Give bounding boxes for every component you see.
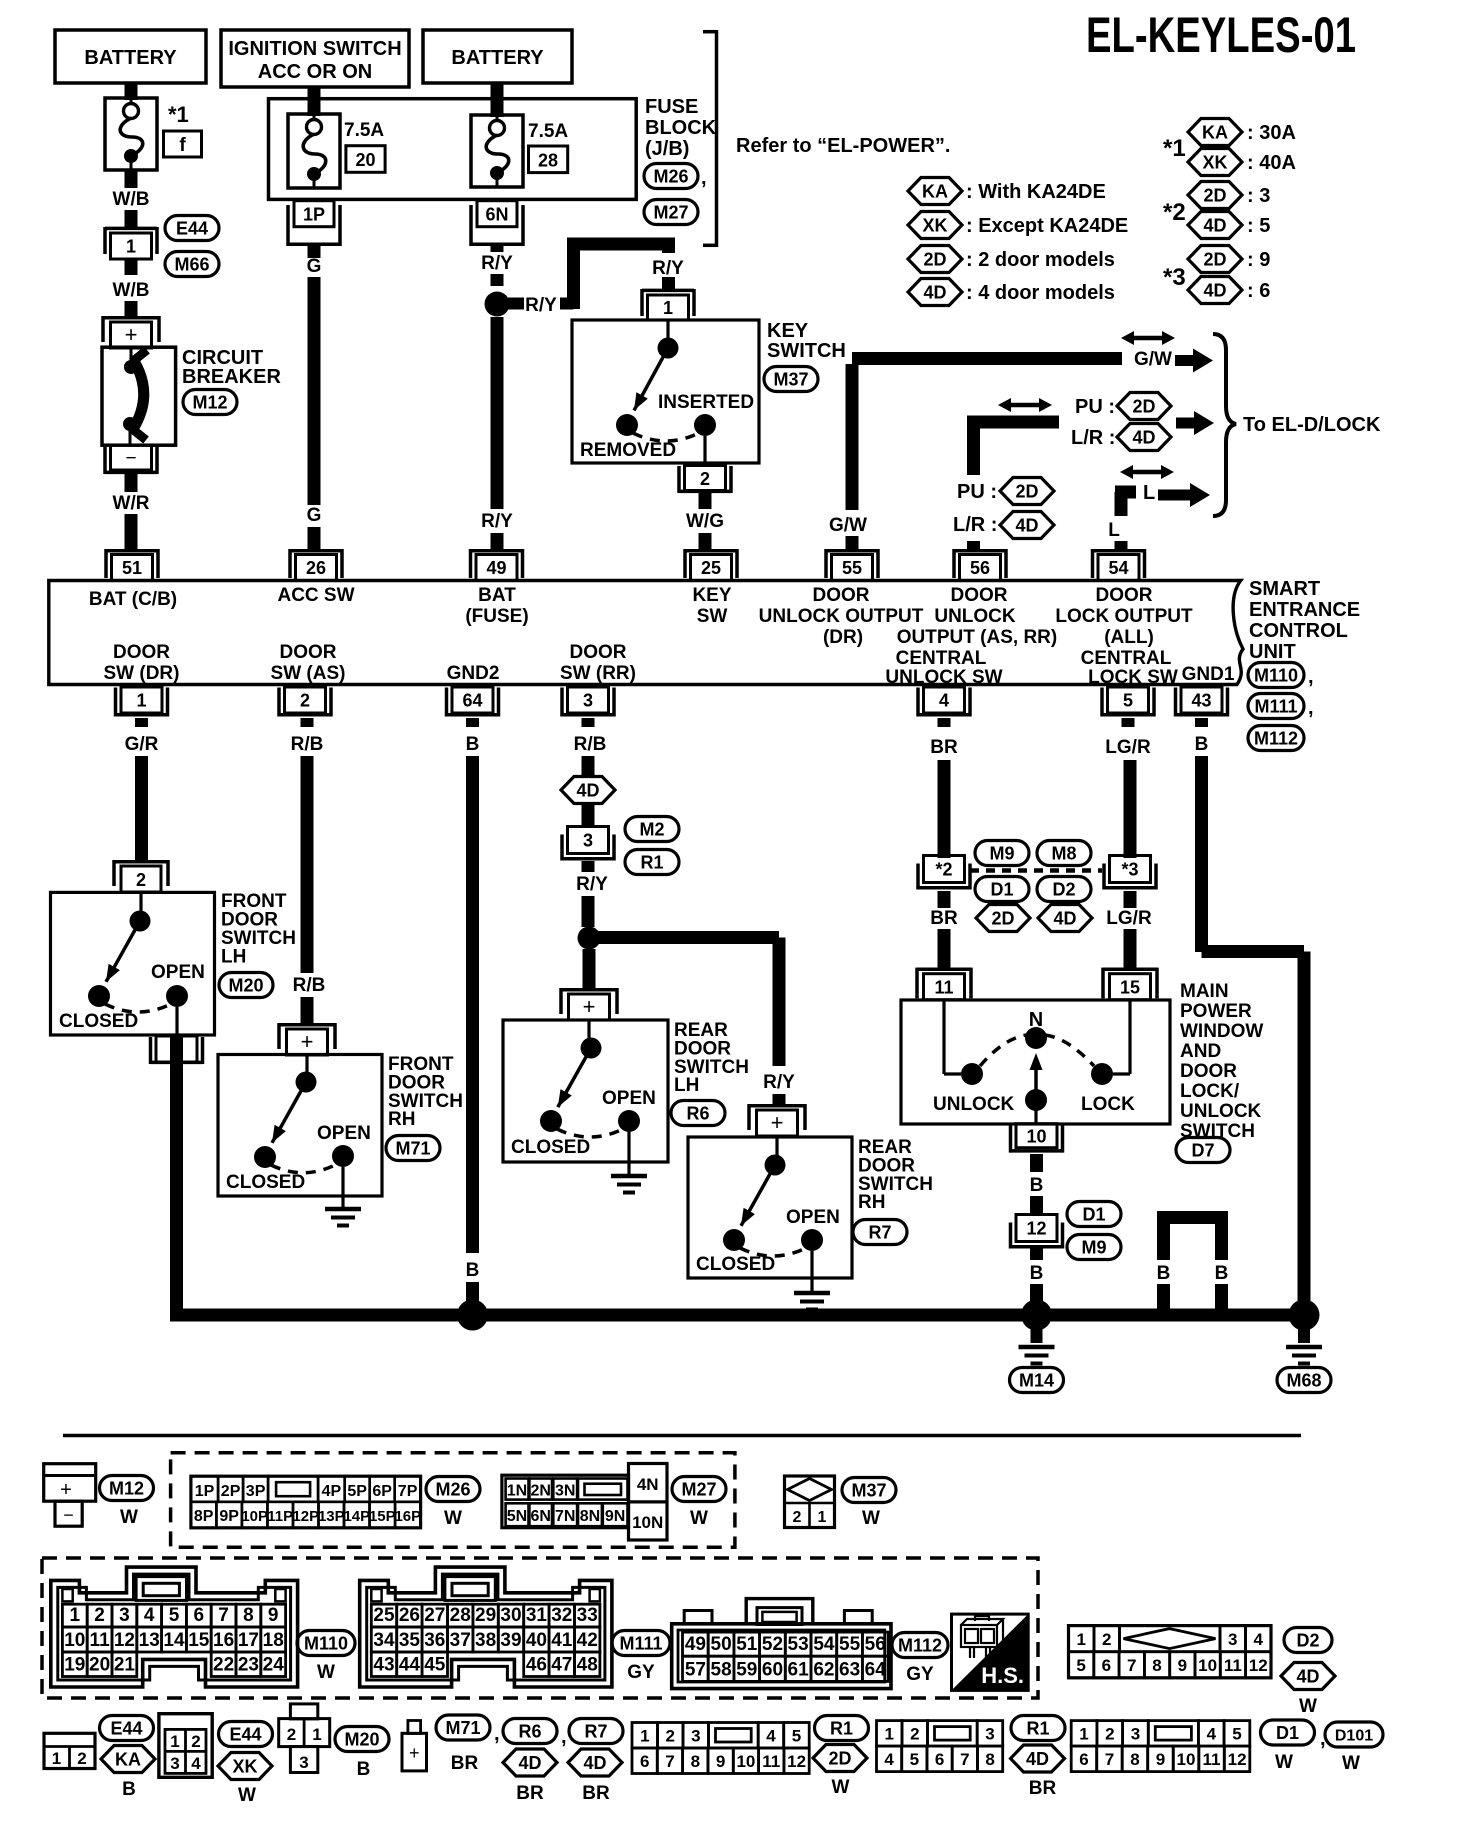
svg-text:R6: R6 [518,1722,541,1742]
svg-text:29: 29 [475,1605,496,1626]
svg-text:M37: M37 [851,1481,886,1501]
svg-text:M14: M14 [1019,1371,1054,1391]
svg-text:27: 27 [424,1605,445,1626]
svg-text:R6: R6 [686,1104,709,1124]
svg-text:−: − [63,1505,74,1525]
svg-text:7: 7 [218,1605,229,1626]
dashed box M110 M111 M112 [42,1558,1038,1698]
svg-text:12: 12 [114,1630,135,1651]
svg-text:2: 2 [665,1727,674,1746]
svg-text:2: 2 [287,1725,296,1744]
svg-text:W/B: W/B [113,189,150,210]
svg-text:LG/R: LG/R [1106,908,1152,929]
ignition switch box [221,30,409,87]
terminal 10 [1016,1124,1057,1148]
front door switch RH box M71 [218,1055,382,1197]
svg-text:37: 37 [450,1630,471,1651]
svg-text:CLOSED: CLOSED [226,1172,305,1193]
svg-text:AND: AND [1180,1041,1221,1062]
svg-text:10: 10 [1198,1656,1217,1675]
svg-text:36: 36 [424,1630,445,1651]
svg-text:2D: 2D [1203,186,1226,206]
svg-text:UNLOCK: UNLOCK [1180,1101,1262,1122]
svg-text:4P: 4P [322,1483,342,1500]
svg-text:3: 3 [985,1725,994,1744]
svg-text:4D: 4D [1296,1667,1319,1687]
connector M37 label [764,367,818,392]
svg-text:4D: 4D [1026,1749,1049,1769]
svg-text:11: 11 [934,978,953,998]
svg-text:W: W [1275,1752,1293,1773]
svg-text:47: 47 [551,1655,572,1676]
svg-text:*3: *3 [1163,264,1186,291]
svg-text:DOOR: DOOR [1096,585,1153,606]
svg-text:LH: LH [221,947,246,968]
svg-text:1: 1 [1076,1630,1085,1649]
ground rear door switch LH [611,1174,647,1179]
svg-text:,: , [701,167,707,189]
svg-text:M8: M8 [1051,844,1076,864]
svg-text:B: B [122,1779,136,1800]
svg-text:*1: *1 [168,102,189,127]
wire battery2 stub [491,83,504,117]
svg-text:12P: 12P [292,1508,319,1525]
wire R/B front [301,718,314,727]
arrow G/W [1175,349,1213,373]
connector M27 label 2 [672,1477,726,1502]
svg-text:RH: RH [388,1109,415,1130]
svg-text:IGNITION SWITCH: IGNITION SWITCH [228,38,401,60]
connector M9 label [975,841,1029,866]
svg-text:R/B: R/B [574,734,607,755]
junction rear R/Y [578,927,601,950]
ground M68 [1298,1315,1310,1343]
hex 4D R6 [503,1749,557,1776]
terminal 2 bottom [285,687,326,713]
connector D2 pinout [1069,1626,1272,1678]
svg-text:: 30A: : 30A [1247,122,1296,144]
svg-text:B: B [1030,1175,1044,1196]
svg-text:ACC SW: ACC SW [277,585,354,606]
connector M66 label [165,252,219,277]
svg-text:CENTRAL: CENTRAL [1081,648,1172,669]
svg-text:25: 25 [373,1605,395,1626]
connector D1/D101 12pin pinout [1071,1721,1097,1747]
wire R/Y rear [582,861,595,872]
svg-text:R/Y: R/Y [525,295,557,316]
legend 4D [908,279,962,306]
svg-text:UNLOCK SW: UNLOCK SW [885,667,1002,688]
connector R7 label [853,1220,907,1245]
terminal 6N [477,201,517,227]
svg-text:R/B: R/B [293,975,326,996]
svg-text:5: 5 [1232,1725,1241,1744]
svg-text:,: , [1308,697,1314,719]
wire R/Y to rear RH [589,931,779,944]
svg-text:7P: 7P [398,1483,418,1500]
svg-text:SW: SW [697,606,728,627]
svg-text:R/Y: R/Y [763,1072,795,1093]
svg-text:11: 11 [1224,1656,1242,1675]
fuse 28 [471,115,523,187]
legend XK [908,212,962,239]
svg-text:22: 22 [213,1655,234,1676]
svg-text:59: 59 [736,1659,757,1680]
connector M20 label [219,973,273,998]
H.S. logo [952,1614,1029,1690]
connector M68 label [1277,1368,1331,1393]
svg-text:G/W: G/W [829,515,867,536]
connector M26 label [644,164,698,189]
svg-text:LH: LH [674,1075,699,1096]
connector *2 [924,856,965,883]
connector E44-KA pinout [44,1733,95,1768]
svg-text:4D: 4D [1132,428,1155,448]
fuse 28 box [529,146,568,173]
svg-text:3: 3 [1131,1725,1140,1744]
connector R1-2D label [815,1716,869,1741]
svg-text:R/Y: R/Y [481,253,513,274]
svg-text:9P: 9P [219,1508,239,1525]
connector R6 label bottom [503,1719,557,1744]
svg-text:(FUSE): (FUSE) [465,606,528,627]
svg-text:R1: R1 [1026,1719,1049,1739]
svg-text:41: 41 [551,1630,573,1651]
svg-text:7N: 7N [555,1508,575,1525]
svg-text:30: 30 [500,1605,521,1626]
dashed link *2 *3 [970,868,1102,873]
connector M111 pinout [360,1567,612,1687]
svg-text:+: + [125,322,138,347]
junction M14 [1021,1300,1052,1331]
terminal 43 bottom [1181,687,1222,713]
connector E44-XK pinout [159,1714,212,1778]
svg-text:LG/R: LG/R [1105,737,1151,758]
svg-text:49: 49 [685,1634,706,1655]
svg-text:D2: D2 [1296,1631,1319,1651]
svg-text:7: 7 [960,1750,969,1769]
connector M110 label 2 [297,1631,355,1656]
svg-text:B: B [1195,734,1209,755]
legend 2D [908,246,962,273]
svg-text:10N: 10N [632,1513,663,1532]
svg-text:7.5A: 7.5A [528,121,568,142]
svg-text:58: 58 [711,1659,732,1680]
svg-text:DOOR: DOOR [280,642,337,663]
hex KA bottom [101,1746,155,1773]
svg-text:56: 56 [970,558,990,578]
svg-text:2D: 2D [991,909,1014,929]
svg-text:G/W: G/W [1134,349,1172,370]
svg-text:10: 10 [736,1752,755,1771]
svg-text:42: 42 [577,1630,598,1651]
svg-text:6: 6 [935,1750,944,1769]
svg-text:5: 5 [792,1727,801,1746]
svg-text:1N: 1N [507,1482,527,1499]
hex 4D rear door [561,777,615,804]
connector M112 pinout [672,1624,891,1689]
svg-text:XK: XK [922,216,947,236]
svg-text:R/Y: R/Y [481,511,513,532]
connector D1 label [975,877,1029,902]
wire G [308,246,321,258]
connector M12 label [183,390,237,415]
connector M27 grid [502,1475,629,1528]
svg-text:M26: M26 [653,167,688,187]
svg-text:,: , [561,1726,567,1748]
svg-text:FUSE: FUSE [645,96,698,118]
svg-text:9: 9 [268,1605,279,1626]
svg-text:: 5: : 5 [1247,215,1270,237]
svg-text:6: 6 [1102,1656,1111,1675]
wire B below 10 [1030,1154,1043,1172]
svg-text:64: 64 [865,1659,887,1680]
svg-text:+: + [60,1479,72,1501]
svg-text:: Except KA24DE: : Except KA24DE [966,215,1128,237]
svg-text:E44: E44 [176,219,208,239]
svg-text:OUTPUT (AS, RR): OUTPUT (AS, RR) [897,627,1057,648]
svg-text:CLOSED: CLOSED [696,1254,775,1275]
connector D7 label [1176,1138,1230,1163]
svg-text:4: 4 [1253,1630,1263,1649]
svg-text:LOCK: LOCK [1081,1094,1135,1115]
separator line [63,1434,1301,1438]
ground M14 [1031,1315,1043,1343]
svg-text:7: 7 [1127,1656,1136,1675]
svg-text:48: 48 [577,1655,598,1676]
svg-text:M20: M20 [344,1730,379,1750]
svg-text:13P: 13P [318,1508,345,1525]
wire W/R [125,474,138,492]
svg-text:POWER: POWER [1180,1001,1252,1022]
svg-text:9N: 9N [605,1508,625,1525]
connector E44 label [165,216,219,241]
svg-text:OPEN: OPEN [151,962,205,983]
terminal 4 bottom [924,687,965,713]
svg-text:55: 55 [839,1634,861,1655]
svg-text:7: 7 [665,1752,674,1771]
svg-text:43: 43 [373,1655,394,1676]
svg-text:MAIN: MAIN [1180,981,1229,1002]
svg-text:15: 15 [1120,978,1140,998]
svg-text:4D: 4D [1203,216,1226,236]
connector plus pinout [408,1721,421,1734]
svg-text:4D: 4D [583,1753,606,1773]
svg-text:PU :: PU : [1075,396,1115,418]
terminal 54 [1093,549,1145,553]
svg-text:PU :: PU : [957,481,997,503]
svg-text:N: N [1029,1009,1043,1031]
svg-text:GND2: GND2 [447,663,500,684]
battery 1 box [55,30,206,83]
svg-text:OPEN: OPEN [317,1123,371,1144]
terminal 15 [1103,968,1157,972]
hex XK bottom [218,1753,272,1780]
svg-text:REMOVED: REMOVED [580,440,676,461]
svg-text:3: 3 [691,1727,700,1746]
svg-text:BR: BR [930,737,958,758]
connector M110 pinout [51,1567,298,1687]
terminal 51 [106,549,158,553]
connector D2 label [1037,877,1091,902]
svg-text:6: 6 [640,1752,649,1771]
svg-text:D2: D2 [1052,880,1075,900]
svg-text:,: , [494,1723,500,1745]
junction M68 [1289,1300,1320,1331]
svg-text:2P: 2P [221,1483,241,1500]
svg-text:DOOR: DOOR [1180,1061,1237,1082]
svg-text:R7: R7 [584,1722,607,1742]
svg-text:6N: 6N [530,1508,550,1525]
svg-text:2: 2 [191,1732,200,1751]
connector M26 grid [191,1476,421,1528]
svg-text:32: 32 [551,1605,572,1626]
svg-text:W: W [1299,1696,1317,1717]
hex 2D R1 [813,1745,867,1772]
terminal 64 bottom [452,687,493,713]
svg-text:XK: XK [232,1757,257,1777]
svg-text:: 3: : 3 [1247,185,1270,207]
svg-text:L/R :: L/R : [1071,427,1115,449]
svg-text:8: 8 [985,1750,994,1769]
svg-text:63: 63 [839,1659,860,1680]
svg-text:5: 5 [169,1605,180,1626]
svg-text:11: 11 [762,1752,780,1771]
svg-text:24: 24 [263,1655,285,1676]
svg-text:W: W [1342,1753,1360,1774]
svg-text:KEY: KEY [692,585,731,606]
svg-text:M37: M37 [773,370,808,390]
connector E44 label bottom2 [219,1722,273,1747]
terminal 56 [954,549,1006,553]
svg-text:KA: KA [1202,123,1228,143]
svg-text:6: 6 [1079,1750,1088,1769]
svg-text:XK: XK [1202,153,1227,173]
svg-text:*3: *3 [1121,860,1138,880]
ground bus wire [170,1309,1304,1322]
svg-text:R1: R1 [640,853,663,873]
svg-text:B: B [357,1759,371,1780]
svg-text:64: 64 [462,691,482,711]
svg-text:49: 49 [486,558,506,578]
svg-text:5N: 5N [507,1508,527,1525]
svg-text:BATTERY: BATTERY [451,47,544,69]
svg-text:: 4 door models: : 4 door models [966,282,1115,304]
svg-text:W: W [120,1507,138,1528]
svg-text:6N: 6N [485,205,508,225]
wire B to ground junction [1030,1245,1043,1260]
svg-text:R/B: R/B [291,734,324,755]
svg-text:D7: D7 [1191,1141,1214,1161]
front door switch LH terminal 2 [114,860,168,864]
svg-text:M71: M71 [395,1139,430,1159]
wire PU/LR horizontal [967,416,1059,429]
svg-text:28: 28 [450,1605,471,1626]
svg-text:R7: R7 [868,1223,891,1243]
svg-text:W: W [238,1785,256,1806]
svg-text:61: 61 [788,1659,810,1680]
svg-text:D1: D1 [990,880,1013,900]
svg-text:4N: 4N [637,1475,659,1494]
svg-text:(ALL): (ALL) [1104,627,1154,648]
svg-text:10P: 10P [241,1508,268,1525]
svg-text:CLOSED: CLOSED [59,1011,138,1032]
rear door switch LH box R6 [503,1020,668,1162]
svg-text:DOOR: DOOR [113,642,170,663]
svg-text:CENTRAL: CENTRAL [896,648,987,669]
svg-text:INSERTED: INSERTED [658,392,754,413]
svg-text:54: 54 [813,1634,835,1655]
connector M8 label [1037,841,1091,866]
svg-text:: 9: : 9 [1247,249,1270,271]
svg-text:+: + [301,1029,314,1054]
svg-text:33: 33 [577,1605,598,1626]
connector 12 D1 M9 [1016,1215,1057,1242]
svg-text:43: 43 [1191,691,1211,711]
svg-text:11: 11 [1203,1750,1221,1769]
svg-text:: 40A: : 40A [1247,152,1296,174]
svg-text:4: 4 [884,1750,894,1769]
svg-text:SWITCH: SWITCH [767,340,846,362]
hex 2D mid [976,905,1030,932]
svg-text:*2: *2 [1163,199,1186,226]
key switch box M37 [572,320,759,463]
svg-text:1P: 1P [195,1483,215,1500]
svg-text:20: 20 [355,150,375,170]
svg-text:M9: M9 [989,844,1014,864]
svg-text:M27: M27 [653,203,688,223]
svg-text:EL-KEYLES-01: EL-KEYLES-01 [1086,7,1356,63]
svg-text:CLOSED: CLOSED [511,1137,590,1158]
connector M12 label 2 [100,1476,154,1501]
svg-text:D1: D1 [1082,1205,1105,1225]
svg-text:21: 21 [114,1655,136,1676]
hex 4D LR [1117,424,1171,451]
svg-text:M68: M68 [1286,1371,1321,1391]
wire W/B 2 [125,259,138,275]
svg-text:15: 15 [188,1630,210,1651]
connector M20 pinout [290,1704,317,1719]
wire battery1 stub [125,83,138,100]
front door switch LH terminal 3 [156,1036,197,1062]
terminal 26 [290,549,342,553]
arrow PU/LR [1176,411,1214,435]
connector 1 E44 M66 [105,227,157,231]
svg-text:R1: R1 [830,1719,853,1739]
svg-text:W/R: W/R [113,493,150,514]
svg-text:UNLOCK: UNLOCK [933,1094,1015,1115]
svg-text:4D: 4D [1053,909,1076,929]
dashed box M26 M27 [171,1453,735,1548]
svg-text:2: 2 [700,469,710,489]
connector M27 label [644,200,698,225]
svg-text:DOOR: DOOR [813,585,870,606]
connector M111 label 2 [612,1631,670,1656]
svg-text:ACC OR ON: ACC OR ON [258,61,372,83]
svg-text:14: 14 [163,1630,185,1651]
front door switch RH + terminal [279,1023,335,1027]
connector D101 label bottom [1325,1722,1383,1747]
svg-text:+: + [583,994,596,1019]
svg-text:51: 51 [122,558,142,578]
connector M20 label bottom [335,1727,389,1752]
svg-text:14P: 14P [343,1508,370,1525]
svg-text:1: 1 [312,1725,321,1744]
connector M112 label 2 [892,1633,948,1658]
svg-text:BR: BR [582,1783,610,1804]
svg-text:B: B [466,734,480,755]
svg-text:8: 8 [1152,1656,1161,1675]
